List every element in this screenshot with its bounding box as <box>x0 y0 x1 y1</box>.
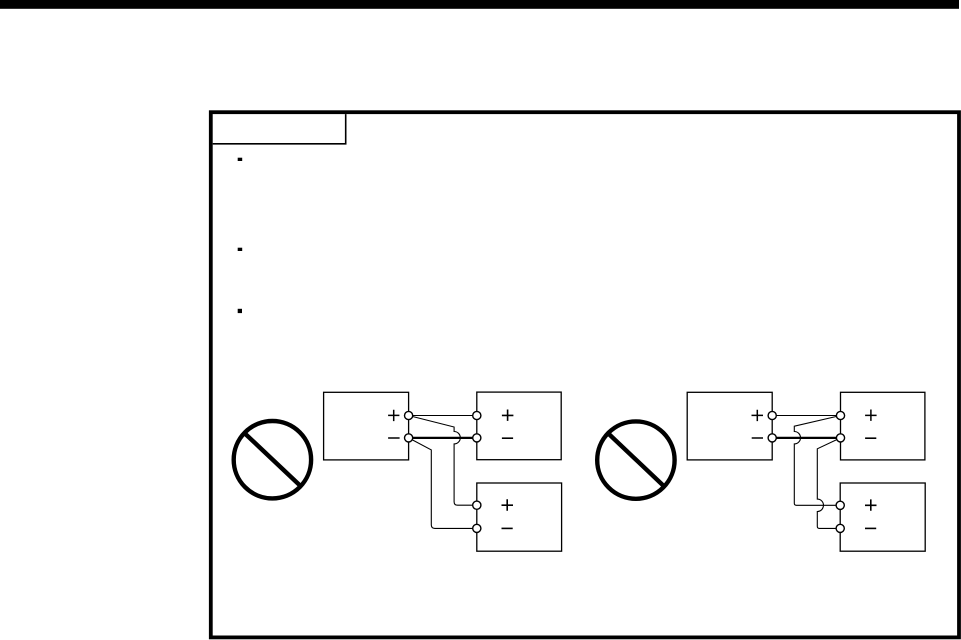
wire battery3- branch to battery4- with hop <box>817 438 840 529</box>
header bar <box>0 0 959 9</box>
bullet 1 <box>238 158 243 161</box>
wire charger2- to battery3- (thick) <box>772 437 840 439</box>
prohibition symbol 1 slash <box>245 433 302 487</box>
charger 1 terminal - <box>405 434 413 442</box>
charger 1 minus label <box>388 437 400 439</box>
battery 3 plus label <box>865 410 877 421</box>
battery box 3 <box>841 392 925 460</box>
charger box 1 <box>324 392 409 460</box>
prohibition symbol 2 circle <box>597 421 674 498</box>
label box <box>213 114 346 144</box>
battery 2 minus label <box>502 527 513 529</box>
battery 1 terminal + <box>473 411 481 419</box>
wire charger1+ branch to battery2+ with hop <box>409 416 477 506</box>
battery 4 terminal - <box>836 524 844 532</box>
charger 2 plus label <box>752 410 764 421</box>
bullet 2 <box>238 248 243 251</box>
wire charger1- branch to battery2- <box>409 438 477 529</box>
wire charger1- to battery1- (thick) <box>409 437 477 439</box>
prohibition symbol 2 slash <box>609 434 665 487</box>
battery 3 minus label <box>865 437 876 439</box>
battery 2 terminal + <box>473 501 481 509</box>
battery 2 plus label <box>502 499 514 510</box>
wire battery3+ branch to battery4+ with hop <box>794 416 840 506</box>
prohibition symbol 1 circle <box>234 421 311 498</box>
battery 1 plus label <box>502 410 514 421</box>
battery 3 terminal - <box>836 434 844 442</box>
wire charger2+ to battery3+ <box>772 415 840 417</box>
battery 4 plus label <box>865 499 877 510</box>
charger 2 minus label <box>752 437 763 439</box>
warning box frame <box>211 112 959 637</box>
wire charger1+ to battery1+ <box>409 415 477 417</box>
battery 1 terminal - <box>473 434 481 442</box>
bullet 3 <box>238 309 242 313</box>
battery 3 terminal + <box>836 411 844 419</box>
charger 2 terminal - <box>768 434 776 442</box>
battery box 1 <box>477 392 561 460</box>
battery 1 minus label <box>502 437 513 439</box>
charger 1 terminal + <box>405 411 413 419</box>
charger box 2 <box>687 392 772 460</box>
charger 1 plus label <box>388 410 399 421</box>
battery 2 terminal - <box>473 524 481 532</box>
battery box 4 <box>840 483 925 551</box>
battery box 2 <box>477 483 562 551</box>
battery 4 minus label <box>865 527 876 529</box>
charger 2 terminal + <box>768 411 776 419</box>
battery 4 terminal + <box>836 501 844 509</box>
